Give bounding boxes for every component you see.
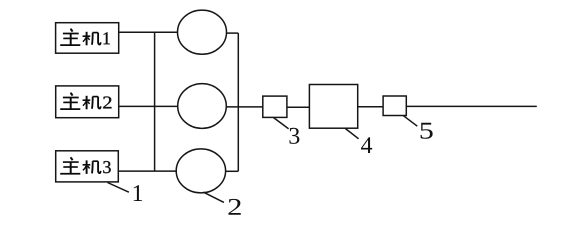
leader line to label 3 (273, 118, 288, 129)
主 top horizontal (63, 33, 79, 35)
机 wood vertical (86, 32, 88, 46)
modem circle middle (178, 84, 227, 129)
主 vertical (70, 34, 72, 45)
leader line to label 2 (204, 192, 224, 202)
label 5 (421, 123, 433, 139)
host box 1 (56, 23, 119, 54)
leader line to label 1 (108, 183, 129, 193)
label 1 (134, 185, 142, 201)
text 主机 in box 3 (60, 157, 101, 174)
主 middle horizontal (63, 37, 78, 39)
主 bottom horizontal (60, 44, 80, 46)
device box 4 (309, 85, 357, 129)
leader line to label 4 (345, 128, 358, 138)
wire box 3 to box 4 (287, 106, 310, 108)
device box 3 (263, 96, 287, 117)
device box 5 (383, 96, 406, 116)
label 2 (228, 199, 240, 215)
wire box3 to circle bottom (118, 170, 176, 172)
wire box 5 to line end (406, 105, 537, 107)
wire box2 to circle middle (119, 105, 178, 107)
机 ji left stroke (91, 33, 94, 45)
digit 2 in box 2 (103, 96, 111, 108)
wire circle bottom right stub (226, 170, 239, 172)
wire left vertical bus (154, 32, 156, 171)
wire box1 to circle top (119, 31, 178, 33)
text 主机 in box 2 (60, 93, 101, 110)
wire right vertical bus (237, 33, 239, 171)
text 主机 in box 1 (drawn strokes) (60, 29, 101, 46)
leader line to label 5 (403, 116, 417, 127)
主 dot (70, 29, 72, 32)
host box 2 (56, 86, 119, 118)
modem circle top (178, 10, 227, 54)
modem circle bottom (176, 149, 225, 193)
label 3 (289, 128, 299, 144)
机 ji top horizontal (93, 32, 99, 34)
host box 3 (56, 151, 119, 182)
机 ji right stroke with hook (98, 33, 101, 45)
wire circle top right stub (226, 32, 238, 34)
机 wood left falling (83, 37, 86, 41)
digit 1 in box 1 (104, 32, 110, 44)
wire circle middle to box 3 (226, 106, 263, 108)
label 4 (361, 137, 372, 153)
机 wood horizontal (83, 35, 91, 37)
wire box 4 to box 5 (358, 106, 383, 108)
digit 3 in box 3 (103, 161, 110, 173)
机 wood right tick (88, 38, 90, 40)
